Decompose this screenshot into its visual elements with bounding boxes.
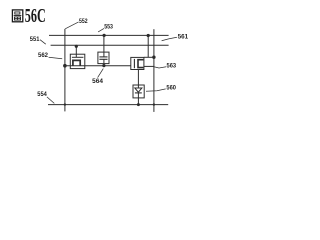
svg-text:562: 562 [38,53,49,59]
svg-text:560: 560 [166,86,176,92]
svg-text:563: 563 [167,63,177,69]
svg-text:561: 561 [178,34,189,40]
svg-text:552: 552 [79,19,88,25]
svg-text:56C: 56C [25,5,46,27]
svg-text:554: 554 [37,92,47,98]
svg-text:564: 564 [92,79,104,85]
svg-text:551: 551 [30,37,40,43]
svg-text:553: 553 [104,24,113,30]
